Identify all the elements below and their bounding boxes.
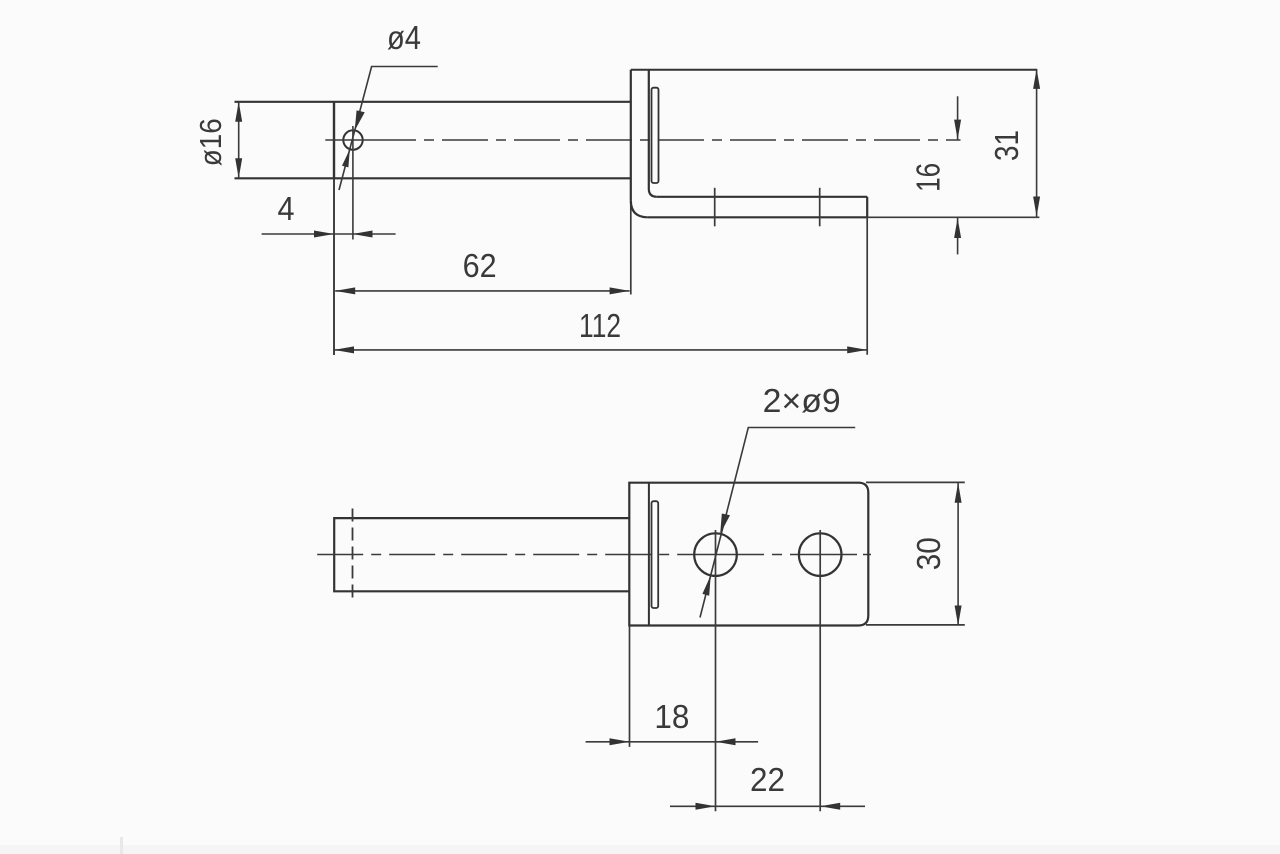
dimension 16 (view1): [957, 96, 959, 139]
wire: pin left edge extension down to 112 dim: [333, 178, 335, 355]
dimension 22 line: [670, 805, 865, 807]
bracket upright outer-left edge: [630, 70, 632, 201]
bracket outer bend: [631, 200, 648, 217]
plate inner line: [648, 483, 650, 626]
dimension dia16 line: [238, 102, 240, 179]
dimension 18 line: [586, 741, 759, 743]
bracket foot top surface: [657, 196, 867, 198]
slot (view2): [652, 501, 659, 608]
dimension 4 line: [262, 233, 396, 235]
plate outline (view2): [629, 483, 868, 626]
svg-text:ø4: ø4: [387, 19, 421, 56]
wire: bracket-left extension down to 62 dim: [630, 200, 632, 294]
svg-text:ø16: ø16: [193, 118, 228, 166]
leader 2x dia9: [700, 428, 855, 618]
dimension 112 line: [334, 349, 867, 351]
leader dia4: [339, 67, 438, 191]
hole2 vertical axis + extension down: [819, 530, 821, 811]
hole 1 (view2): [694, 533, 737, 576]
dimension 30: [957, 483, 959, 626]
wire: main centerline view1: [325, 139, 370, 141]
wire: pin outline bottom: [235, 177, 631, 179]
bracket foot bottom surface + extension right for 31/16 dims: [648, 216, 867, 218]
hole 2 (view2): [799, 533, 842, 576]
node: hole centerline tick 2 on foot: [819, 188, 821, 227]
svg-text:31: 31: [988, 130, 1025, 161]
svg-text:18: 18: [654, 698, 689, 735]
dimension 31: [1036, 69, 1038, 217]
svg-text:62: 62: [463, 247, 497, 284]
svg-text:16: 16: [910, 163, 947, 192]
slot in upright (view1): [652, 88, 659, 183]
svg-text:2×ø9: 2×ø9: [763, 382, 841, 419]
svg-text:22: 22: [750, 761, 785, 798]
pin outline (view2): [334, 518, 629, 591]
bracket foot right end edge: [866, 197, 868, 218]
wire: foot right edge extension down to 112 dim: [866, 217, 868, 354]
plate top edge extension right: [866, 481, 965, 483]
hole1 vertical axis + extension down: [715, 530, 717, 811]
plate left edge extension down: [629, 626, 631, 747]
node A: cross hole dia4 circle: [343, 130, 362, 149]
bracket upright inner surface with inner bend: [649, 70, 657, 197]
bracket top edge + extension to 31 dim: [631, 69, 1037, 71]
centerline view2: [317, 554, 688, 556]
svg-text:30: 30: [910, 537, 947, 570]
dimension 62 line: [335, 290, 629, 292]
wire: hole vertical axis + extension to 4-dim: [352, 126, 354, 240]
plate bottom edge extension right: [866, 624, 965, 626]
faint scan noise band at bottom: [0, 845, 1280, 854]
wire: pin left edge: [333, 102, 335, 179]
node: hole centerline tick 1 on foot: [714, 188, 716, 227]
svg-text:4: 4: [278, 190, 295, 227]
hidden hole axis (view2): [352, 509, 354, 601]
svg-text:112: 112: [579, 307, 621, 344]
wire: pin outline top (with ext to dia16 dim): [235, 101, 631, 103]
